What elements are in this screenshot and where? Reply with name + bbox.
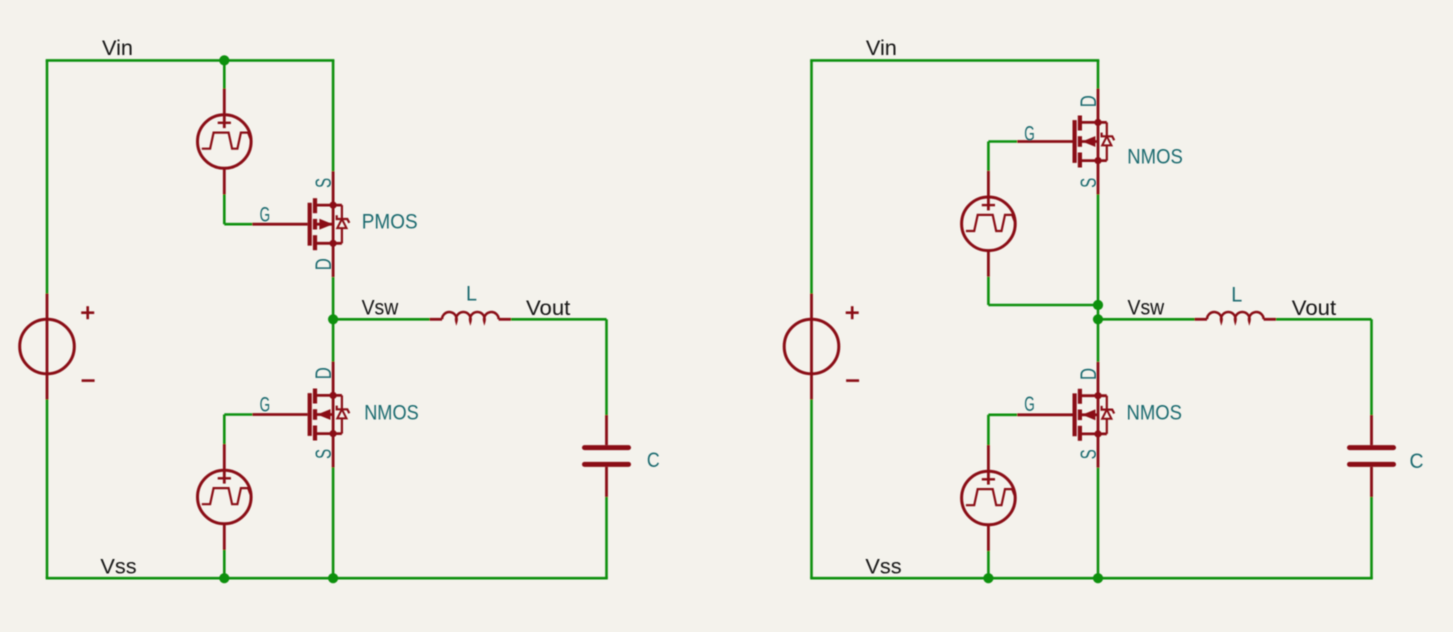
wire Vsw to NMOS D (332, 319, 335, 361)
svg-text:L: L (1231, 284, 1242, 307)
pin NMOS3 D (1097, 89, 1100, 123)
pin NMOS4 S (1097, 434, 1100, 468)
DC voltage source V1 (20, 294, 95, 400)
wire gate NMOS3 (988, 140, 1017, 143)
svg-text:S: S (311, 449, 336, 459)
junction Vsw right (1093, 314, 1103, 324)
pin PMOS D (332, 243, 335, 277)
wire V5 to Vss (987, 551, 990, 578)
svg-text:Vss: Vss (100, 556, 136, 579)
wire PMOS D to Vsw (332, 277, 335, 319)
wire Vout down (605, 319, 608, 415)
wire C to Vss right (1370, 497, 1373, 578)
wire gate corner to V4 (987, 142, 990, 171)
svg-text:Vsw: Vsw (1128, 297, 1165, 320)
pin NMOS S (332, 434, 335, 468)
transistor M4 (NMOS symbol) (1017, 389, 1114, 441)
svg-text:L: L (466, 282, 477, 305)
pulse voltage source V4 (962, 171, 1016, 277)
pin NMOS3 S (1097, 161, 1100, 195)
pin NMOS4 D (1097, 362, 1100, 396)
wire gate NMOS4 (988, 413, 1017, 416)
junction Vsw (328, 314, 338, 324)
transistor M3 (NMOS symbol) (1017, 116, 1114, 168)
wire right rail upper (810, 60, 813, 293)
wire V4 bottom (987, 277, 990, 305)
wire (46, 577, 608, 580)
svg-text:S: S (311, 178, 336, 188)
pulse voltage source V5 (962, 445, 1016, 551)
transistor M2 (NMOS symbol) (252, 389, 349, 441)
svg-text:PMOS: PMOS (362, 211, 418, 234)
DC voltage source V2dc (784, 294, 859, 400)
wire right rail lower (810, 400, 813, 579)
wire NMOS3 S to Vsw (1097, 195, 1100, 320)
svg-text:D: D (311, 258, 336, 270)
svg-text:Vout: Vout (1292, 297, 1336, 320)
svg-text:Vout: Vout (526, 297, 570, 320)
wire Vsw to NMOS4 D (1097, 319, 1100, 362)
wire L to Vout (511, 318, 606, 321)
junction Vss/V5 (983, 573, 993, 583)
svg-text:G: G (1024, 123, 1035, 146)
wire NMOS4 S to Vss (1097, 468, 1100, 578)
wire gate corner to V5 (987, 415, 990, 445)
wire V3 to Vss (223, 550, 226, 578)
wire PMOS S (332, 60, 335, 171)
pin NMOS D (332, 362, 335, 396)
svg-text:NMOS: NMOS (1127, 402, 1183, 425)
junction Vss/NMOS4 (1093, 573, 1103, 583)
junction Vss/V3 (219, 573, 229, 583)
svg-text:NMOS: NMOS (1127, 145, 1183, 168)
wire gate PMOS (224, 223, 252, 226)
svg-text:C: C (647, 449, 660, 472)
svg-text:G: G (260, 394, 271, 417)
pulse voltage source V3 (198, 444, 252, 550)
wire (810, 59, 1099, 62)
wire Vout down right (1370, 319, 1373, 415)
svg-text:S: S (1076, 178, 1101, 188)
capacitor C2 (1350, 415, 1394, 497)
junction Vin/V2 (219, 55, 229, 65)
wire gate corner to V3 (223, 415, 226, 445)
svg-text:Vin: Vin (866, 37, 897, 60)
svg-text:G: G (260, 204, 271, 227)
junction S/V4 return (1093, 300, 1103, 310)
svg-text:D: D (311, 367, 336, 379)
svg-text:Vsw: Vsw (362, 297, 399, 320)
wire C to Vss (605, 497, 608, 578)
wire left rail lower (46, 400, 49, 579)
inductor L1 (430, 312, 512, 321)
wire V2 top stub (223, 60, 226, 88)
wire (810, 577, 1373, 580)
wire Vsw to L (333, 318, 429, 321)
wire (46, 59, 335, 62)
svg-text:D: D (1076, 95, 1101, 107)
wire NMOS3 D (1097, 60, 1100, 88)
wire V2 to gate corner (223, 195, 226, 225)
svg-text:G: G (1024, 393, 1035, 416)
wire left rail upper (46, 60, 49, 293)
wire V4 return to S (988, 304, 1098, 307)
svg-text:Vin: Vin (102, 37, 133, 60)
svg-text:NMOS: NMOS (364, 402, 419, 425)
capacitor C1 (585, 415, 629, 497)
transistor M1 (PMOS symbol) (252, 198, 349, 250)
inductor L2 (1195, 312, 1277, 321)
svg-text:Vss: Vss (865, 556, 901, 579)
pulse voltage source V2 (198, 89, 252, 195)
svg-text:S: S (1076, 449, 1101, 459)
wire NMOS S to Vss (332, 468, 335, 579)
wire Vsw to L right (1098, 318, 1195, 321)
pin PMOS S (332, 171, 335, 205)
wire L to Vout right (1276, 318, 1371, 321)
wire gate NMOS (224, 413, 252, 416)
svg-text:D: D (1076, 368, 1101, 380)
junction Vss/NMOS (328, 573, 338, 583)
svg-text:C: C (1410, 450, 1424, 473)
